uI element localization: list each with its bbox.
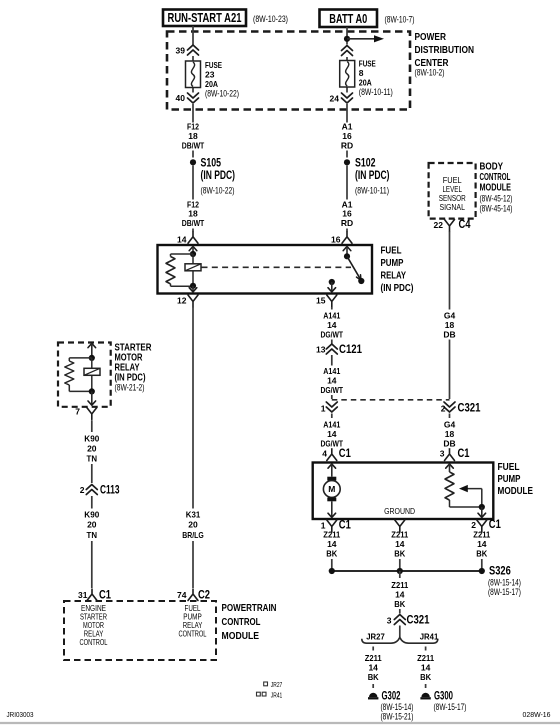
svg-text:MODULE: MODULE: [222, 630, 260, 642]
svg-text:C1: C1: [99, 590, 111, 602]
svg-text:DISTRIBUTION: DISTRIBUTION: [415, 44, 475, 56]
svg-text:CONTROL: CONTROL: [222, 616, 261, 628]
svg-text:(8W-10-11): (8W-10-11): [359, 87, 393, 97]
svg-text:14: 14: [327, 320, 337, 330]
svg-text:FUSE: FUSE: [359, 59, 376, 69]
svg-text:BK: BK: [368, 672, 380, 682]
svg-text:2: 2: [471, 520, 476, 530]
svg-text:M: M: [328, 484, 335, 494]
svg-text:A141: A141: [323, 366, 340, 376]
svg-text:G300: G300: [434, 691, 453, 703]
svg-text:(8W-15-17): (8W-15-17): [434, 702, 467, 712]
svg-text:TN: TN: [87, 530, 98, 540]
svg-text:K31: K31: [186, 510, 201, 520]
svg-text:S102: S102: [355, 157, 376, 169]
svg-text:C2: C2: [198, 590, 210, 602]
svg-text:(8W-10-22): (8W-10-22): [205, 89, 239, 99]
svg-text:(8W-15-21): (8W-15-21): [381, 711, 414, 721]
svg-text:G4: G4: [444, 419, 456, 429]
svg-text:39: 39: [176, 46, 186, 56]
svg-text:C321: C321: [458, 403, 481, 415]
svg-text:C121: C121: [339, 344, 362, 356]
svg-text:JR27: JR27: [271, 680, 283, 689]
svg-text:C1: C1: [489, 519, 501, 531]
svg-text:20A: 20A: [359, 78, 372, 88]
svg-text:SENSOR: SENSOR: [439, 194, 466, 203]
svg-text:BK: BK: [394, 599, 406, 609]
svg-text:S105: S105: [201, 157, 222, 169]
svg-text:BATT A0: BATT A0: [329, 12, 367, 26]
svg-text:JR41: JR41: [420, 632, 439, 642]
svg-text:A1: A1: [342, 121, 353, 131]
svg-text:C1: C1: [458, 448, 470, 460]
svg-text:2: 2: [80, 485, 85, 495]
svg-text:20: 20: [188, 520, 198, 530]
svg-text:POWER: POWER: [415, 31, 447, 43]
svg-text:(IN PDC): (IN PDC): [381, 282, 414, 294]
svg-text:(8W-10-23): (8W-10-23): [253, 14, 288, 24]
svg-text:RELAY: RELAY: [381, 270, 407, 282]
svg-text:Z211: Z211: [323, 530, 340, 540]
svg-text:(8W-45-14): (8W-45-14): [480, 203, 513, 213]
svg-text:Z211: Z211: [391, 530, 408, 540]
svg-text:FUEL: FUEL: [443, 176, 463, 185]
svg-text:C1: C1: [339, 520, 351, 532]
svg-text:A141: A141: [323, 310, 340, 320]
svg-text:18: 18: [445, 429, 455, 439]
svg-text:LEVEL: LEVEL: [442, 185, 462, 194]
svg-text:C4: C4: [459, 219, 471, 231]
svg-text:K90: K90: [84, 434, 99, 444]
svg-text:MODULE: MODULE: [480, 182, 512, 194]
svg-text:(IN PDC): (IN PDC): [201, 170, 236, 182]
svg-text:JR41: JR41: [271, 690, 283, 699]
svg-text:31: 31: [78, 590, 88, 600]
svg-text:74: 74: [177, 590, 187, 600]
svg-text:C321: C321: [407, 615, 430, 627]
svg-text:24: 24: [330, 94, 340, 104]
svg-text:G4: G4: [444, 310, 456, 320]
svg-text:FUEL: FUEL: [381, 245, 402, 257]
svg-text:(8W-15-14): (8W-15-14): [488, 577, 521, 587]
svg-text:14: 14: [327, 429, 337, 439]
svg-text:MODULE: MODULE: [498, 485, 534, 497]
svg-text:RUN-START A21: RUN-START A21: [168, 11, 242, 25]
svg-text:CONTROL: CONTROL: [179, 630, 207, 639]
svg-text:Z211: Z211: [417, 653, 434, 663]
svg-text:(8W-45-12): (8W-45-12): [480, 193, 513, 203]
svg-text:13: 13: [316, 345, 326, 355]
svg-text:F12: F12: [187, 121, 199, 131]
svg-text:14: 14: [327, 539, 337, 549]
svg-text:SIGNAL: SIGNAL: [439, 203, 465, 212]
svg-text:BK: BK: [420, 672, 432, 682]
svg-text:FUSE: FUSE: [205, 60, 222, 70]
svg-text:8: 8: [359, 68, 364, 78]
svg-text:20: 20: [87, 444, 97, 454]
svg-text:BK: BK: [476, 549, 488, 559]
svg-text:DB: DB: [443, 329, 455, 339]
svg-text:GROUND: GROUND: [384, 506, 415, 516]
svg-text:POWERTRAIN: POWERTRAIN: [222, 602, 277, 614]
svg-text:3: 3: [440, 449, 445, 459]
svg-text:(IN PDC): (IN PDC): [355, 170, 390, 182]
svg-text:DB/WT: DB/WT: [182, 218, 205, 228]
svg-text:14: 14: [177, 235, 187, 245]
svg-text:14: 14: [368, 663, 378, 673]
svg-text:16: 16: [342, 131, 352, 141]
svg-text:Z211: Z211: [365, 653, 382, 663]
svg-text:PUMP: PUMP: [498, 473, 521, 485]
svg-text:RD: RD: [341, 218, 353, 228]
svg-text:16: 16: [331, 235, 341, 245]
svg-text:(8W-10-11): (8W-10-11): [355, 186, 389, 196]
svg-text:1: 1: [321, 404, 326, 414]
svg-text:14: 14: [395, 590, 405, 600]
svg-text:DB/WT: DB/WT: [182, 140, 205, 150]
svg-text:028W-16: 028W-16: [523, 710, 551, 719]
svg-text:DG/WT: DG/WT: [321, 385, 344, 395]
svg-text:FUEL: FUEL: [498, 461, 520, 473]
svg-text:TN: TN: [87, 454, 98, 464]
svg-text:(8W-10-22): (8W-10-22): [201, 185, 235, 195]
svg-text:DG/WT: DG/WT: [321, 329, 344, 339]
svg-text:(8W-21-2): (8W-21-2): [115, 383, 145, 393]
svg-text:G302: G302: [382, 691, 401, 703]
svg-text:18: 18: [445, 320, 455, 330]
svg-text:(8W-10-2): (8W-10-2): [415, 68, 445, 78]
svg-text:S326: S326: [489, 566, 511, 578]
svg-text:C1: C1: [339, 448, 351, 460]
svg-text:3: 3: [387, 616, 392, 626]
svg-text:4: 4: [322, 449, 327, 459]
svg-text:12: 12: [177, 296, 187, 306]
svg-text:BR/LG: BR/LG: [182, 530, 204, 540]
svg-text:(8W-15-17): (8W-15-17): [488, 587, 521, 597]
svg-text:7: 7: [75, 407, 80, 417]
svg-text:A141: A141: [323, 419, 340, 429]
svg-text:14: 14: [395, 539, 405, 549]
svg-text:40: 40: [176, 93, 186, 103]
svg-text:14: 14: [477, 539, 487, 549]
svg-text:PUMP: PUMP: [381, 257, 404, 269]
svg-text:20: 20: [87, 520, 97, 530]
svg-text:CONTROL: CONTROL: [80, 638, 108, 647]
svg-text:Z211: Z211: [391, 580, 408, 590]
svg-text:RD: RD: [341, 140, 353, 150]
svg-text:23: 23: [205, 70, 215, 80]
svg-text:DG/WT: DG/WT: [321, 438, 344, 448]
svg-text:20A: 20A: [205, 79, 218, 89]
svg-text:DB: DB: [443, 438, 455, 448]
svg-text:Z211: Z211: [473, 530, 490, 540]
svg-text:2: 2: [441, 404, 446, 414]
svg-text:JR27: JR27: [366, 632, 385, 642]
svg-text:(8W-10-7): (8W-10-7): [385, 15, 415, 25]
svg-text:BK: BK: [394, 549, 406, 559]
svg-text:14: 14: [421, 663, 431, 673]
svg-text:JRI03003: JRI03003: [7, 710, 34, 719]
svg-text:BK: BK: [326, 549, 338, 559]
svg-text:15: 15: [316, 296, 326, 306]
svg-text:14: 14: [327, 376, 337, 386]
svg-text:22: 22: [434, 220, 444, 230]
svg-text:C113: C113: [100, 485, 120, 497]
svg-text:K90: K90: [84, 510, 99, 520]
svg-text:18: 18: [188, 131, 198, 141]
